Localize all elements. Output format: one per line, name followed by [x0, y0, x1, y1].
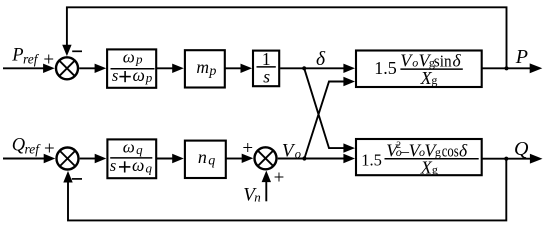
minus sign at summing junction 2: [72, 178, 82, 180]
plus sign upper-left of summing junction 3: [242, 138, 253, 159]
wire block omega_p to block m_p: [156, 64, 184, 73]
node P junction dot: [504, 66, 508, 70]
svg-text:1.5: 1.5: [361, 150, 382, 169]
wire summing junction 2 to block omega_q: [80, 154, 107, 163]
svg-text:Q: Q: [514, 138, 529, 160]
svg-text:ωq: ωq: [123, 138, 143, 157]
node delta junction dot: [302, 66, 306, 70]
wire summing junction 1 to block omega_p: [79, 64, 106, 73]
wire summing junction 3 to block Q with node V_o: [278, 154, 355, 163]
wire 1/s to block P with node delta: [280, 64, 355, 73]
summing junction 1 (circle with X): [56, 57, 78, 79]
svg-text:s: s: [263, 66, 270, 86]
summing junction 3 (circle with X): [255, 147, 277, 169]
wire block P to output arrow with node: [482, 63, 543, 73]
wire top feedback from node P to summing junction 1: [62, 7, 506, 67]
svg-text:Pref: Pref: [11, 46, 40, 67]
plus sign at summing junction 2: [44, 139, 55, 160]
label P output: [515, 46, 528, 68]
block 1/s integrator: [253, 49, 279, 86]
minus sign at summing junction 1: [72, 50, 82, 52]
svg-text:+: +: [274, 167, 285, 188]
svg-text:P: P: [515, 46, 528, 68]
svg-text:sωp: sωp: [112, 65, 153, 85]
block Q = 1.5 (Vo^2 - VoVg cos(delta))/Xg: [356, 139, 482, 177]
wire P_ref input with arrow: [3, 64, 55, 73]
svg-text:Vn: Vn: [243, 185, 260, 206]
svg-text:1.5: 1.5: [374, 58, 397, 78]
wire block n_q to summing junction 3: [226, 154, 253, 163]
label Q output: [514, 138, 529, 160]
wire delta to lower block Q (crossing diagonal): [304, 68, 355, 153]
node Q junction dot: [504, 157, 508, 161]
block m_p: [185, 50, 225, 87]
svg-text:δ: δ: [316, 49, 326, 70]
block omega_q/(s+omega_q): [107, 138, 156, 179]
svg-text:+: +: [242, 138, 253, 159]
summing junction 2 (circle with X): [57, 148, 79, 170]
wire bottom feedback from node Q to summing junction 2: [63, 159, 506, 221]
input Q_ref label: [12, 136, 41, 157]
wire Q_ref input with arrow: [3, 154, 55, 163]
wire V_o to upper block P (crossing diagonal): [304, 77, 355, 159]
block omega_p/(s+omega_p): [107, 47, 156, 88]
wire block omega_q to block n_q: [156, 154, 184, 163]
block P = 1.5 VoVg sin(delta)/Xg: [356, 50, 482, 88]
input P_ref label: [11, 46, 40, 67]
plus sign at summing junction 1: [43, 49, 54, 70]
label V_n: [243, 185, 260, 206]
block n_q: [185, 141, 226, 178]
wire block Q to output arrow with node: [482, 154, 543, 164]
wire block m_p to block 1/s: [225, 64, 252, 73]
plus sign lower-right of summing junction 3: [274, 167, 285, 188]
label V_o: [282, 140, 301, 161]
wire V_n input with arrow: [262, 171, 271, 202]
label delta: [316, 49, 326, 70]
svg-text:nq: nq: [198, 147, 215, 169]
svg-text:Xg: Xg: [420, 68, 438, 88]
svg-text:Qref: Qref: [12, 136, 41, 157]
node V_o junction dot: [302, 156, 306, 160]
svg-text:mp: mp: [196, 57, 216, 79]
